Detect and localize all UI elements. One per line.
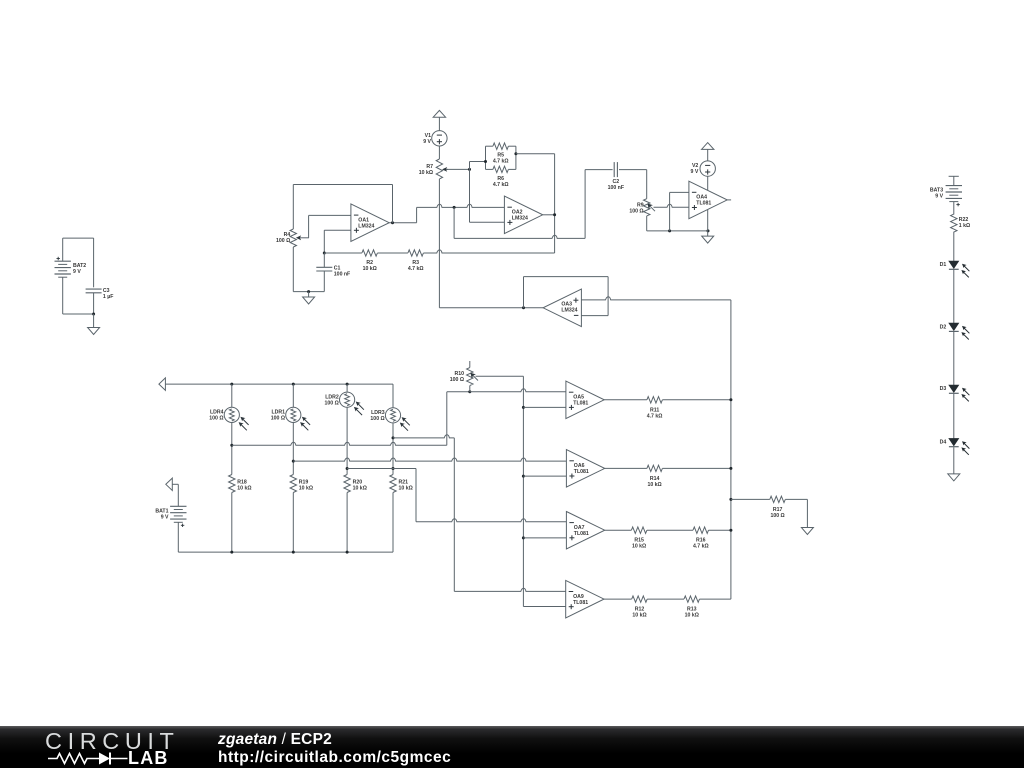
wire LDR3 column bbox=[392, 407, 394, 409]
op-amp OA9 bbox=[566, 580, 604, 618]
potentiometer R7 bbox=[436, 159, 442, 179]
junction LDR1 sense bbox=[292, 460, 295, 463]
LED D2 bbox=[949, 323, 958, 330]
LED D1 bbox=[949, 261, 958, 268]
wire D2 to D3 bbox=[953, 331, 955, 385]
wire OA7 out to R15 bbox=[605, 529, 632, 531]
wire LDR4 column bbox=[231, 384, 233, 407]
svg-text:10 kΩ: 10 kΩ bbox=[363, 266, 377, 272]
junction plus bus OA7 bbox=[522, 536, 525, 539]
svg-text:100 Ω: 100 Ω bbox=[209, 416, 223, 422]
CircuitLab logo text bbox=[45, 728, 180, 755]
wire OA5 plus tap bbox=[523, 406, 566, 408]
svg-text:TL081: TL081 bbox=[696, 201, 711, 207]
svg-text:LM324: LM324 bbox=[358, 224, 374, 230]
wire R9 bottom rail bbox=[646, 216, 648, 231]
power flag V+ for V2 bbox=[702, 143, 714, 150]
svg-text:4.7 kΩ: 4.7 kΩ bbox=[647, 413, 663, 419]
wire R22 to D1 bbox=[953, 232, 955, 262]
svg-text:1 kΩ: 1 kΩ bbox=[959, 223, 970, 229]
resistor R16 bbox=[693, 527, 708, 533]
wire OA4 output stub bbox=[727, 199, 731, 201]
photoresistor LDR3 bbox=[385, 408, 400, 423]
wire V+ arrow to V1 bbox=[438, 117, 440, 130]
svg-text:TL081: TL081 bbox=[573, 401, 588, 407]
wire OA6 out to R14 bbox=[605, 467, 647, 469]
wire LDR2R21 sense to OA7 minus bbox=[347, 468, 416, 470]
svg-text:9 V: 9 V bbox=[73, 269, 81, 275]
svg-text:4.7 kΩ: 4.7 kΩ bbox=[493, 182, 509, 188]
wire D4 to ground bbox=[953, 447, 955, 474]
wire OA3 feedback loop bbox=[523, 277, 525, 308]
svg-text:LM324: LM324 bbox=[512, 216, 528, 222]
wire OA2 output vertical bbox=[554, 154, 556, 253]
LED D4 bbox=[949, 439, 958, 446]
wire LDR3 sense to OA9 minus bbox=[393, 435, 454, 438]
wire V2 to OA4 supply and ground bbox=[707, 176, 709, 236]
wire to ground BAT2 bbox=[93, 314, 95, 328]
junction rail LDR1 bbox=[292, 383, 295, 386]
junction plus bus OA6 bbox=[522, 475, 525, 478]
svg-text:10 kΩ: 10 kΩ bbox=[632, 613, 646, 619]
wire C2 to R9 bbox=[619, 169, 647, 171]
byline bbox=[218, 731, 332, 749]
wire node to R2 bbox=[324, 252, 362, 254]
potentiometer R10 bbox=[469, 361, 471, 368]
svg-text:9 V: 9 V bbox=[691, 169, 699, 175]
junction rail LDR2 bbox=[346, 383, 349, 386]
junction R10 bottom bbox=[468, 390, 471, 393]
wire R14 to bus bbox=[662, 467, 731, 469]
junction LDR3 sense bbox=[392, 436, 395, 439]
svg-text:100 Ω: 100 Ω bbox=[370, 416, 384, 422]
junction bus R11 bbox=[729, 398, 732, 401]
wire OA2 tip to vertical bbox=[543, 214, 555, 216]
svg-text:TL081: TL081 bbox=[574, 469, 589, 475]
svg-text:100 nF: 100 nF bbox=[334, 271, 350, 277]
op-amp OA1 bbox=[351, 204, 389, 242]
resistor R11 bbox=[647, 397, 662, 403]
wire wiper node to R5R6 and OA2+ bbox=[470, 161, 486, 163]
junction rail OA4fb bbox=[668, 229, 671, 232]
power flag V+ for V1 bbox=[433, 110, 445, 117]
wire R3 to OA2 out node bbox=[423, 250, 554, 253]
wire R10 wiper plus bus bbox=[476, 375, 524, 377]
ground symbol OA4 bbox=[702, 236, 714, 243]
logo squiggle resistor and diode bbox=[0, 726, 200, 768]
svg-text:D1: D1 bbox=[940, 262, 947, 268]
summing bus vertical bbox=[730, 300, 732, 599]
photoresistor LDR4 bbox=[224, 407, 239, 422]
junction rail V2 bbox=[707, 229, 710, 232]
wire LDR1 column bbox=[292, 384, 294, 407]
battery BAT3 bbox=[946, 185, 962, 187]
junction OA2 output bbox=[553, 213, 556, 216]
wire OA3 plus to bus bbox=[581, 297, 731, 300]
wire D3 to D4 bbox=[953, 394, 955, 439]
battery BAT1 bbox=[170, 505, 186, 507]
wire LDR1 sense to OA6 minus bbox=[293, 458, 566, 461]
junction R5R6 left bbox=[484, 160, 487, 163]
svg-text:9 V: 9 V bbox=[161, 514, 169, 520]
wire arrow to V2 bbox=[707, 149, 709, 161]
voltage source V2 bbox=[700, 161, 715, 176]
svg-text:10 kΩ: 10 kΩ bbox=[399, 485, 413, 491]
resistor R17 bbox=[770, 496, 785, 502]
ground symbol LED chain bbox=[948, 474, 960, 481]
wire BAT2 bottom bbox=[62, 277, 64, 314]
op-amp OA6 bbox=[566, 450, 604, 488]
wire OA1 out to OA2 minus bbox=[417, 204, 505, 207]
junction rail R20 bbox=[346, 551, 349, 554]
svg-text:LM324: LM324 bbox=[561, 307, 577, 313]
junction rail R18 bbox=[230, 551, 233, 554]
svg-text:10 kΩ: 10 kΩ bbox=[299, 485, 313, 491]
op-amp OA2 bbox=[504, 196, 542, 234]
wire R15 to R16 bbox=[647, 529, 693, 531]
wire LDR2 column bbox=[346, 384, 348, 392]
junction OA1 output bbox=[391, 221, 394, 224]
wire OA1 plus to C1 node bbox=[324, 229, 351, 231]
wire BAT2 top bbox=[63, 237, 94, 239]
junction bus R16 bbox=[729, 529, 732, 532]
url bbox=[218, 749, 451, 767]
op-amp OA4 bbox=[689, 181, 727, 219]
resistor R5 bbox=[486, 145, 493, 147]
junction rail LDR4 bbox=[230, 383, 233, 386]
junction bus R17 bbox=[729, 498, 732, 501]
resistor R12 bbox=[632, 596, 647, 602]
svg-text:9 V: 9 V bbox=[935, 194, 943, 200]
potentiometer R4 bbox=[290, 229, 296, 247]
svg-text:10 kΩ: 10 kΩ bbox=[632, 544, 646, 550]
BAT3 top stub bbox=[949, 175, 959, 177]
ground stub left bbox=[308, 292, 310, 297]
photoresistor LDR2 bbox=[340, 392, 355, 407]
svg-text:4.7 kΩ: 4.7 kΩ bbox=[493, 159, 509, 165]
ground symbol BAT2 bbox=[88, 328, 100, 335]
wire R4 wiper to OA1 minus bbox=[308, 215, 310, 237]
wire OA4 minus feedback bbox=[670, 191, 689, 193]
R5R6 right vertical bbox=[515, 146, 517, 169]
wire R10 bottom to OA5 minus bbox=[470, 389, 566, 392]
resistor R13 bbox=[684, 596, 699, 602]
resistor R15 bbox=[631, 527, 646, 533]
junction rail R19 bbox=[292, 551, 295, 554]
resistor R20 bbox=[344, 475, 350, 493]
resistor R3 bbox=[408, 250, 423, 256]
svg-text:D3: D3 bbox=[940, 386, 947, 392]
svg-text:100 Ω: 100 Ω bbox=[271, 416, 285, 422]
LED D3 bbox=[949, 385, 958, 392]
junction bus R14 bbox=[729, 467, 732, 470]
wire R17 to ground bbox=[785, 498, 807, 500]
wire OA9 out to R12 bbox=[604, 598, 632, 600]
wire R16 to bus bbox=[709, 529, 731, 531]
wire bus to R17 bbox=[731, 498, 770, 500]
ground symbol R17 bbox=[801, 528, 813, 535]
resistor R21 bbox=[390, 475, 396, 493]
junction OA1OA2 node bbox=[453, 206, 456, 209]
resistor R6 bbox=[486, 168, 493, 170]
svg-text:10 kΩ: 10 kΩ bbox=[237, 485, 251, 491]
svg-text:D2: D2 bbox=[940, 324, 947, 330]
junction OA3 output bbox=[522, 306, 525, 309]
svg-text:100 Ω: 100 Ω bbox=[325, 401, 339, 407]
wire R11 to bus bbox=[662, 399, 731, 401]
wire OA1 output up bbox=[389, 222, 416, 224]
svg-text:10 kΩ: 10 kΩ bbox=[419, 170, 433, 176]
junction ground node C1 bbox=[307, 290, 310, 293]
potentiometer R9 bbox=[644, 199, 650, 216]
svg-text:9 V: 9 V bbox=[423, 139, 431, 145]
svg-text:4.7 kΩ: 4.7 kΩ bbox=[693, 544, 709, 550]
svg-text:TL081: TL081 bbox=[574, 531, 589, 537]
wire R2 to R3 bbox=[377, 252, 408, 254]
bottom brand bar bbox=[0, 726, 1024, 768]
net flag top rail bbox=[159, 378, 166, 390]
battery BAT2 bbox=[55, 260, 71, 262]
svg-text:D4: D4 bbox=[940, 440, 947, 446]
svg-text:100 Ω: 100 Ω bbox=[770, 513, 784, 519]
wire OA6 plus tap bbox=[523, 475, 566, 477]
wire R4 bottom to ground rail bbox=[292, 247, 294, 292]
ground symbol left bbox=[303, 297, 315, 304]
wire minus node to C2 bbox=[453, 207, 455, 238]
wire R5R6 right to OA2 out bbox=[516, 153, 555, 155]
op-amp OA5 bbox=[566, 381, 604, 419]
wire R12 to R13 bbox=[647, 598, 684, 600]
wire OA1 feedback to R4 top bbox=[392, 185, 394, 223]
wire OA5 out to R11 bbox=[604, 399, 647, 401]
R5R6 left vertical bbox=[485, 146, 487, 169]
top rail wire bbox=[165, 383, 393, 385]
junction R5R6 right bbox=[514, 152, 517, 155]
wire D1 to D2 bbox=[953, 269, 955, 323]
wire R13 to bus corner bbox=[700, 598, 731, 600]
wire R7 bottom down to OA3 output bbox=[438, 179, 440, 308]
svg-text:100 Ω: 100 Ω bbox=[276, 238, 290, 244]
capacitor C2 bbox=[613, 162, 615, 177]
node junction R7 wiper bbox=[468, 168, 471, 171]
svg-text:100 Ω: 100 Ω bbox=[450, 377, 464, 383]
svg-text:10 kΩ: 10 kΩ bbox=[685, 613, 699, 619]
junction C1 node bbox=[323, 252, 326, 255]
resistor R14 bbox=[647, 465, 662, 471]
resistor R22 bbox=[951, 214, 957, 232]
photoresistor LDR1 bbox=[286, 407, 301, 422]
svg-text:4.7 kΩ: 4.7 kΩ bbox=[408, 266, 424, 272]
svg-text:1 µF: 1 µF bbox=[103, 294, 113, 300]
junction plus bus OA5 bbox=[522, 406, 525, 409]
bottom rail bbox=[178, 551, 393, 553]
svg-text:100 nF: 100 nF bbox=[608, 185, 624, 191]
wire BAT3 to R22 bbox=[953, 202, 955, 215]
resistor R19 bbox=[290, 475, 296, 493]
op-amp OA3 bbox=[543, 289, 581, 327]
capacitor C1 bbox=[323, 253, 325, 267]
wire OA7 plus tap bbox=[523, 537, 566, 539]
op-amp OA7 bbox=[566, 512, 604, 550]
wire R9 wiper to OA4 plus bbox=[654, 204, 689, 207]
junction R21 top bbox=[392, 467, 395, 470]
voltage source V1 bbox=[432, 131, 447, 146]
wire BAT1 to rail bbox=[177, 522, 179, 552]
resistor R18 bbox=[229, 475, 235, 493]
capacitor C3 bbox=[93, 238, 95, 287]
svg-text:10 kΩ: 10 kΩ bbox=[647, 482, 661, 488]
junction LDR4 sense bbox=[230, 444, 233, 447]
wire V1 to R7 bbox=[438, 146, 440, 159]
wire R7 wiper to node bbox=[447, 168, 470, 170]
svg-text:TL081: TL081 bbox=[573, 600, 588, 606]
junction LDR2 sense bbox=[346, 467, 349, 470]
svg-text:100 Ω: 100 Ω bbox=[629, 208, 643, 214]
wire LDR4 sense to R10 bbox=[232, 442, 447, 445]
resistor R2 bbox=[362, 250, 377, 256]
svg-text:10 kΩ: 10 kΩ bbox=[353, 485, 367, 491]
wire flag to BAT1 bbox=[172, 483, 178, 485]
net flag BAT1 bbox=[166, 478, 173, 490]
junction BAT2 ground bbox=[92, 313, 95, 316]
wire BAT2 top lead bbox=[62, 238, 64, 261]
